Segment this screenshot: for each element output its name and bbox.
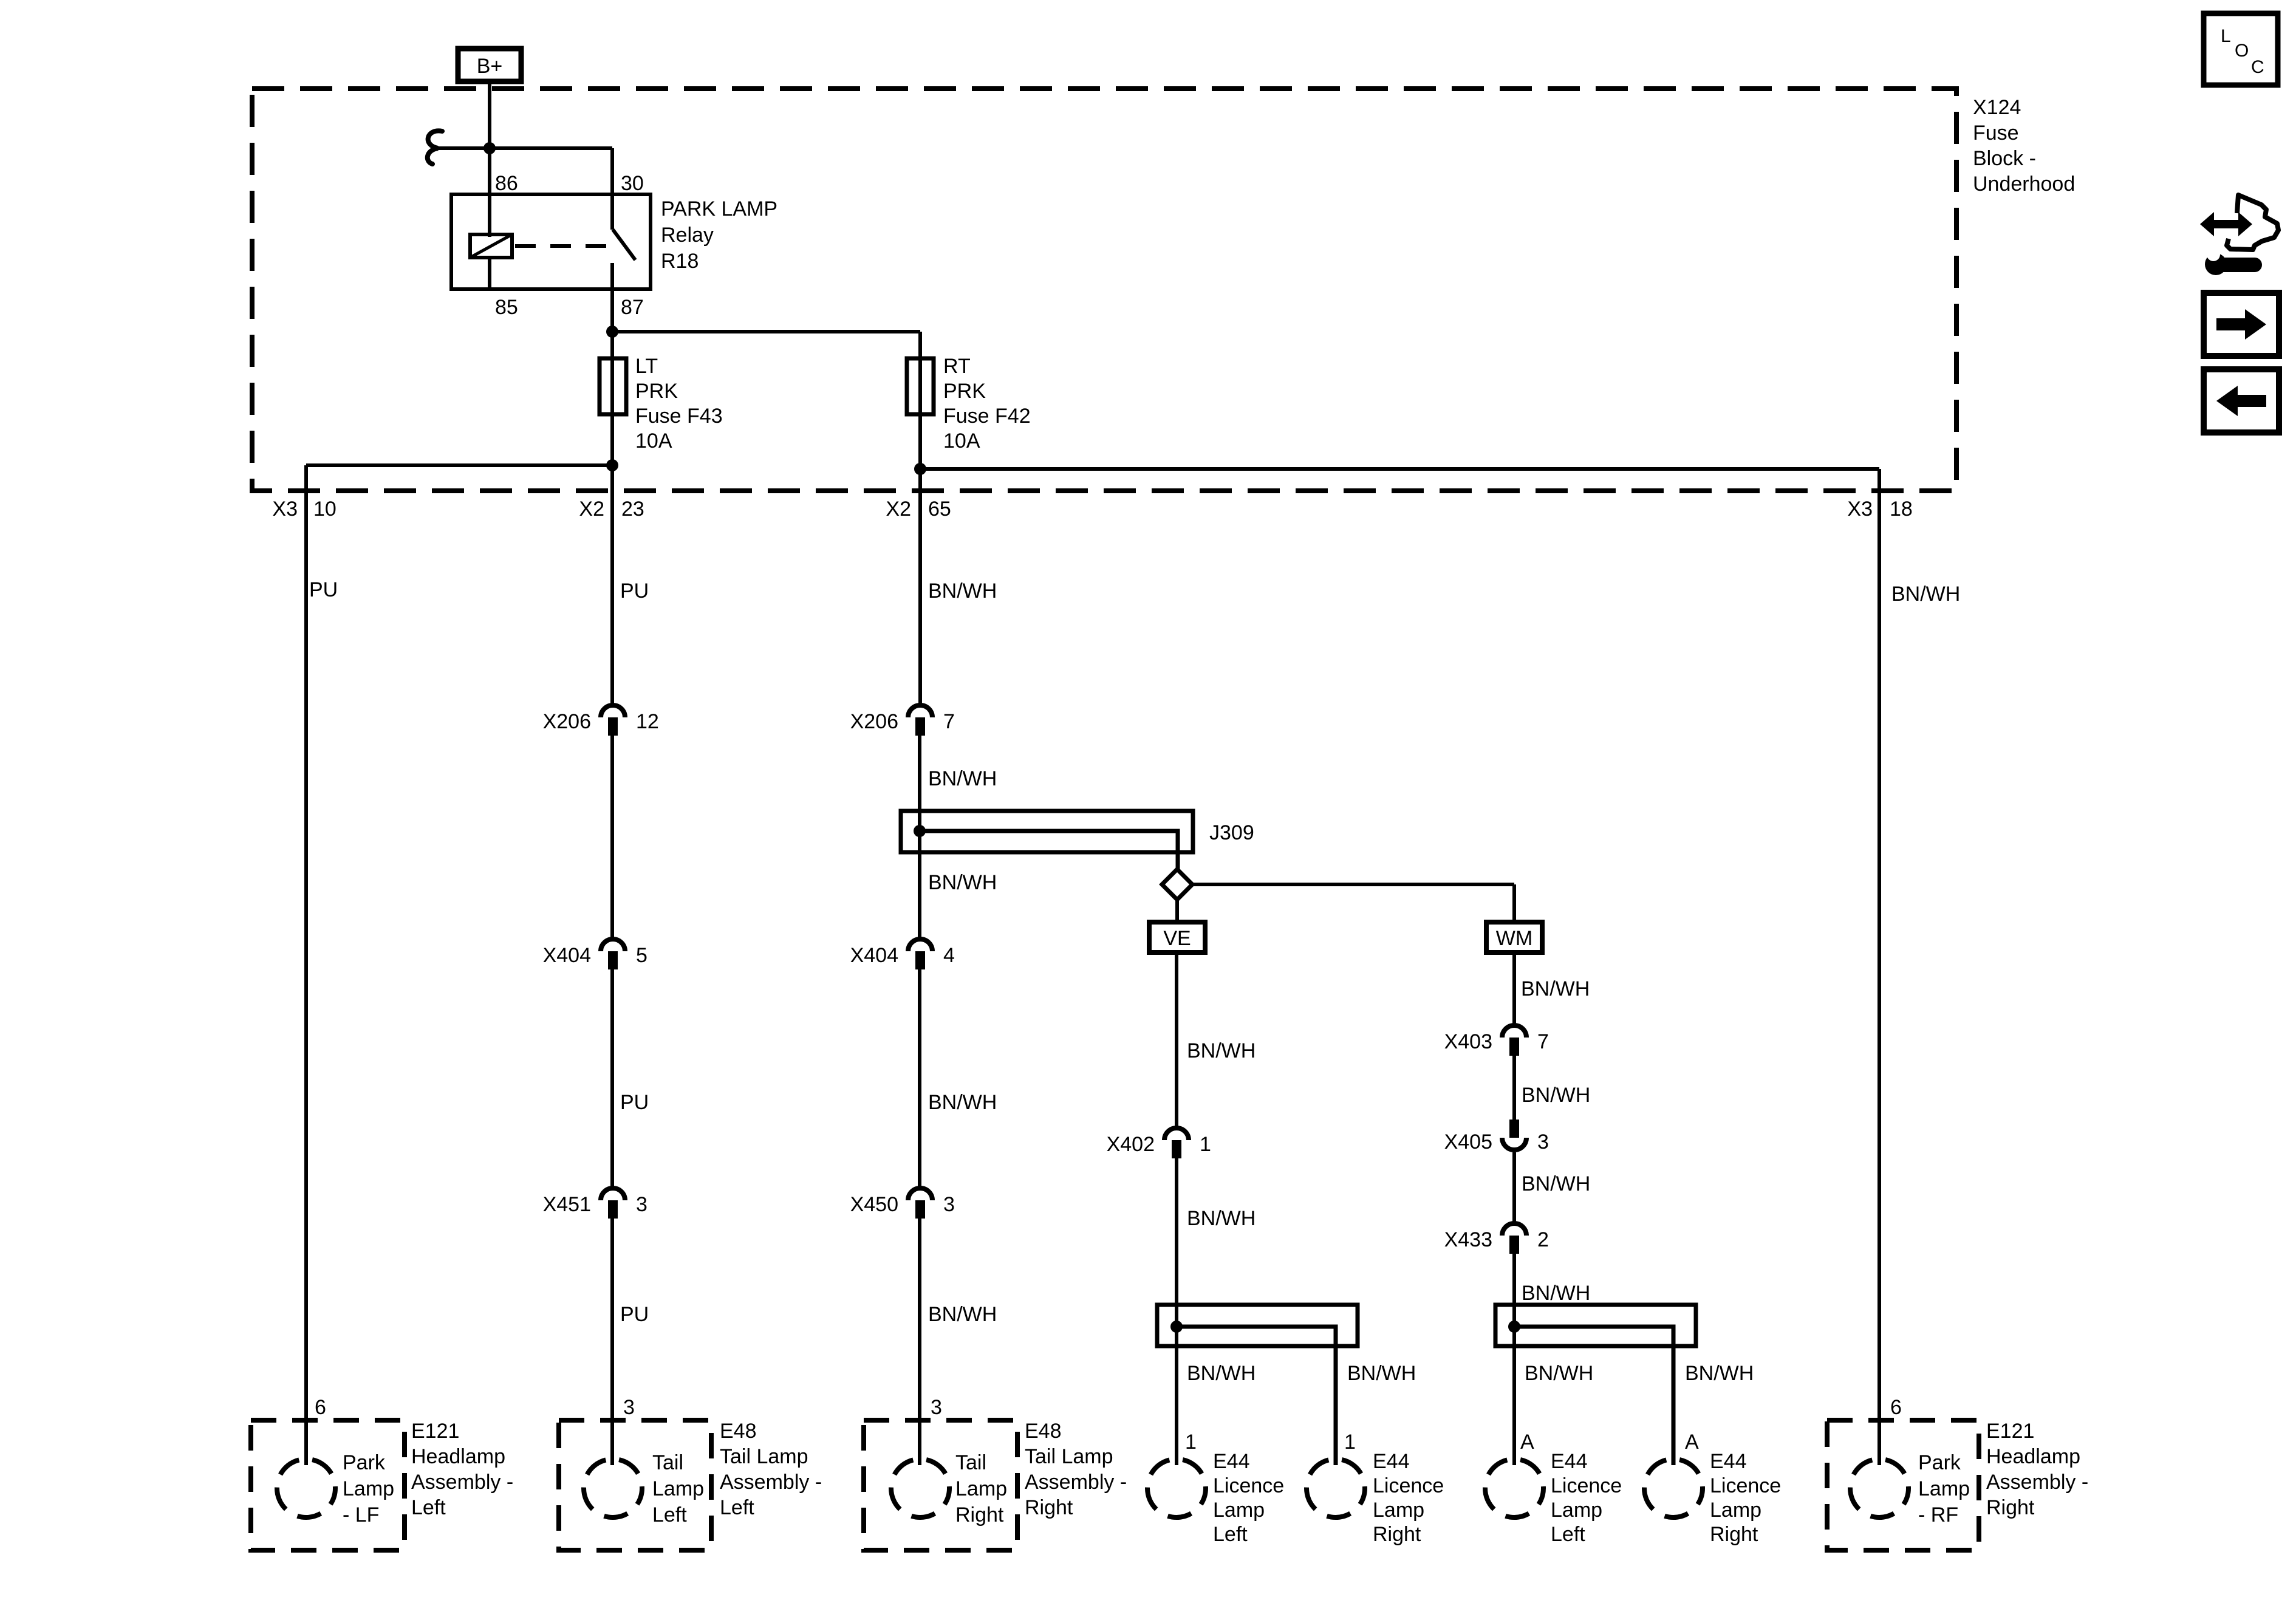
svg-text:R18: R18 — [661, 250, 699, 273]
svg-text:BN/WH: BN/WH — [1891, 583, 1960, 606]
fusible link symbol — [428, 131, 442, 164]
junction on B+ wire — [483, 142, 496, 154]
wire X403 to X405 — [1512, 1056, 1516, 1120]
svg-text:X433: X433 — [1444, 1228, 1492, 1251]
svg-text:X451: X451 — [543, 1193, 591, 1216]
svg-text:PRK: PRK — [635, 380, 678, 403]
tail lamp assembly E48 left dashed box — [559, 1420, 711, 1550]
wire BN/WH segment 3 — [918, 969, 921, 1187]
svg-text:3: 3 — [623, 1396, 635, 1419]
svg-text:X405: X405 — [1444, 1130, 1492, 1154]
nav arrow back — [2216, 386, 2266, 416]
svg-text:Assembly -: Assembly - — [1025, 1471, 1127, 1494]
svg-text:BN/WH: BN/WH — [928, 1091, 997, 1114]
svg-text:1: 1 — [1200, 1133, 1211, 1156]
nav arrow forward — [2216, 309, 2266, 340]
connector X403 pin 7 — [1502, 1025, 1526, 1038]
svg-text:Licence: Licence — [1373, 1474, 1444, 1497]
licence lamp E44 left bulb — [1147, 1459, 1206, 1517]
connector X404 pin 4 — [908, 939, 932, 951]
tail lamp right bulb — [891, 1459, 949, 1517]
svg-text:PARK LAMP: PARK LAMP — [661, 197, 777, 220]
tail lamp left bulb — [584, 1459, 642, 1517]
wire through fuse F42 — [918, 358, 922, 469]
svg-text:5: 5 — [636, 944, 647, 967]
svg-text:Lamp: Lamp — [652, 1477, 704, 1500]
wire X2-23 PU segment 1 — [610, 414, 614, 704]
svg-text:2: 2 — [1537, 1228, 1549, 1251]
wire diamond to WM — [1192, 883, 1514, 886]
svg-text:BN/WH: BN/WH — [1522, 1282, 1590, 1305]
svg-text:Left: Left — [720, 1496, 754, 1519]
svg-text:Tail: Tail — [955, 1451, 986, 1474]
svg-text:A: A — [1520, 1431, 1534, 1454]
svg-text:BN/WH: BN/WH — [928, 1303, 997, 1326]
connector X433 pin 2 — [1502, 1223, 1526, 1236]
svg-text:Tail Lamp: Tail Lamp — [1025, 1445, 1113, 1468]
svg-text:Licence: Licence — [1213, 1474, 1284, 1497]
harness tag WM — [1486, 922, 1542, 952]
svg-text:Left: Left — [411, 1496, 446, 1519]
svg-text:Fuse F42: Fuse F42 — [943, 405, 1031, 428]
svg-text:30: 30 — [621, 172, 644, 195]
svg-text:PU: PU — [620, 1303, 649, 1326]
svg-text:7: 7 — [943, 710, 955, 733]
svg-text:Lamp: Lamp — [1213, 1499, 1265, 1522]
wire VE to X402 — [1175, 952, 1178, 1127]
connector X405 pin 3 — [1502, 1138, 1526, 1150]
svg-text:6: 6 — [1890, 1396, 1902, 1419]
svg-text:RT: RT — [943, 355, 971, 378]
connector X404 pin 5 — [601, 939, 625, 951]
svg-text:3: 3 — [931, 1396, 942, 1419]
headlamp assembly E121 right dashed box — [1827, 1420, 1979, 1550]
fuse F42 — [907, 358, 934, 414]
svg-text:BN/WH: BN/WH — [928, 871, 997, 894]
svg-text:PU: PU — [620, 1091, 649, 1114]
junction at F43 output — [606, 459, 618, 471]
relay R18 outline — [451, 194, 651, 289]
park lamp LF bulb — [277, 1459, 335, 1517]
svg-text:12: 12 — [636, 710, 659, 733]
svg-text:BN/WH: BN/WH — [1187, 1362, 1256, 1385]
svg-text:Lamp: Lamp — [343, 1477, 394, 1500]
svg-text:- RF: - RF — [1918, 1503, 1958, 1526]
svg-text:Lamp: Lamp — [1551, 1499, 1602, 1522]
svg-text:X3: X3 — [272, 497, 298, 521]
licence lamp E44 left bulb (rear) — [1485, 1459, 1543, 1517]
svg-text:10A: 10A — [943, 429, 980, 453]
wire diamond to VE — [1175, 900, 1179, 922]
svg-text:Fuse: Fuse — [1973, 121, 2019, 145]
svg-text:87: 87 — [621, 296, 644, 319]
svg-text:X3: X3 — [1847, 497, 1873, 521]
svg-text:7: 7 — [1537, 1030, 1549, 1053]
svg-text:Park: Park — [1918, 1451, 1961, 1474]
component-view icon (car outline with arrows) — [2227, 195, 2278, 250]
svg-text:E48: E48 — [720, 1420, 757, 1443]
svg-text:Underhood: Underhood — [1973, 173, 2075, 196]
svg-text:J309: J309 — [1209, 821, 1254, 844]
svg-text:10: 10 — [313, 497, 337, 521]
splice J309 — [901, 811, 1193, 852]
wire WM to X403 — [1512, 952, 1516, 1024]
svg-text:B+: B+ — [477, 55, 503, 78]
svg-text:X124: X124 — [1973, 96, 2021, 119]
headlamp assembly E121 left dashed box — [251, 1420, 405, 1550]
svg-text:X450: X450 — [850, 1193, 898, 1216]
wire squiggle to relay pin 30 — [438, 146, 612, 150]
junction at pin 87 — [606, 326, 618, 338]
connector X451 pin 3 — [601, 1188, 625, 1200]
svg-text:E44: E44 — [1373, 1450, 1410, 1473]
tail lamp assembly E48 right dashed box — [864, 1420, 1017, 1550]
svg-text:Relay: Relay — [661, 224, 714, 247]
licence lamp E44 right bulb (rear) — [1644, 1459, 1703, 1517]
svg-text:Lamp: Lamp — [1710, 1499, 1761, 1522]
svg-text:Left: Left — [1551, 1523, 1585, 1546]
svg-text:BN/WH: BN/WH — [1522, 1084, 1590, 1107]
wire X402 to splice — [1175, 1158, 1178, 1465]
nav arrow back box — [2204, 369, 2279, 432]
svg-text:Fuse F43: Fuse F43 — [635, 405, 723, 428]
splice box licence right — [1495, 1305, 1696, 1346]
svg-text:Right: Right — [955, 1503, 1004, 1526]
harness tag VE — [1149, 922, 1205, 952]
svg-text:Lamp: Lamp — [1918, 1477, 1970, 1500]
wire BN/WH segment 4 — [918, 1219, 921, 1465]
svg-text:X403: X403 — [1444, 1030, 1492, 1053]
svg-text:Licence: Licence — [1710, 1474, 1781, 1497]
wire through fuse F43 — [610, 332, 614, 465]
svg-text:Assembly -: Assembly - — [411, 1471, 513, 1494]
svg-text:A: A — [1685, 1431, 1699, 1454]
svg-text:10A: 10A — [635, 429, 672, 453]
svg-text:Tail: Tail — [652, 1451, 683, 1474]
svg-text:E44: E44 — [1213, 1450, 1250, 1473]
svg-text:PU: PU — [309, 578, 338, 601]
svg-text:E44: E44 — [1551, 1450, 1588, 1473]
svg-text:Licence: Licence — [1551, 1474, 1622, 1497]
svg-text:Right: Right — [1025, 1496, 1073, 1519]
svg-text:LT: LT — [635, 355, 658, 378]
svg-text:C: C — [2251, 57, 2264, 77]
svg-text:BN/WH: BN/WH — [1187, 1207, 1256, 1230]
svg-text:Left: Left — [652, 1503, 687, 1526]
svg-text:Assembly -: Assembly - — [720, 1471, 822, 1494]
svg-text:86: 86 — [495, 172, 518, 195]
LOC page tag — [2204, 13, 2278, 85]
svg-text:Park: Park — [343, 1451, 386, 1474]
svg-text:Block -: Block - — [1973, 147, 2036, 170]
licence lamp E44 right bulb — [1307, 1459, 1365, 1517]
svg-text:X206: X206 — [543, 710, 591, 733]
svg-text:3: 3 — [636, 1193, 647, 1216]
fuse F43 — [600, 358, 626, 414]
svg-text:E121: E121 — [411, 1420, 459, 1443]
svg-text:WM: WM — [1496, 927, 1532, 950]
svg-text:- LF: - LF — [343, 1503, 379, 1526]
junction at F42 output — [914, 463, 926, 475]
svg-text:E121: E121 — [1986, 1420, 2034, 1443]
fuse block X124 dashed outline — [252, 89, 1956, 491]
svg-text:BN/WH: BN/WH — [928, 767, 997, 790]
svg-text:3: 3 — [1537, 1130, 1549, 1154]
wire PU segment 3 — [610, 969, 614, 1187]
relay coil — [470, 234, 512, 258]
svg-text:18: 18 — [1890, 497, 1913, 521]
svg-text:E48: E48 — [1025, 1420, 1062, 1443]
svg-text:Assembly -: Assembly - — [1986, 1471, 2088, 1494]
svg-text:BN/WH: BN/WH — [1522, 1172, 1590, 1195]
wire X3-10 to park lamp LF — [304, 465, 308, 1465]
svg-text:6: 6 — [315, 1396, 326, 1419]
connector X206 pin 7 — [908, 705, 932, 717]
svg-text:O: O — [2235, 41, 2249, 61]
connector X402 pin 1 — [1164, 1128, 1189, 1140]
svg-text:1: 1 — [1344, 1431, 1356, 1454]
wire PU segment 2 — [610, 736, 614, 938]
svg-text:Tail Lamp: Tail Lamp — [720, 1445, 808, 1468]
svg-text:X206: X206 — [850, 710, 898, 733]
svg-text:Headlamp: Headlamp — [1986, 1445, 2080, 1468]
svg-text:BN/WH: BN/WH — [1525, 1362, 1593, 1385]
svg-text:1: 1 — [1185, 1431, 1197, 1454]
svg-text:Right: Right — [1373, 1523, 1421, 1546]
svg-text:X402: X402 — [1107, 1133, 1155, 1156]
svg-text:PU: PU — [620, 579, 649, 603]
wire X2-65 BN/WH segment 1 — [918, 414, 922, 704]
svg-text:BN/WH: BN/WH — [1187, 1039, 1256, 1062]
svg-text:BN/WH: BN/WH — [1521, 977, 1590, 1000]
nav arrow forward box — [2204, 293, 2279, 356]
power terminal B+ — [458, 49, 521, 81]
relay switch contact — [613, 230, 635, 260]
svg-text:Lamp: Lamp — [955, 1477, 1007, 1500]
svg-text:E44: E44 — [1710, 1450, 1747, 1473]
svg-text:Lamp: Lamp — [1373, 1499, 1424, 1522]
wrench icon — [2222, 258, 2255, 272]
svg-text:X2: X2 — [886, 497, 911, 521]
svg-text:Right: Right — [1710, 1523, 1758, 1546]
svg-text:BN/WH: BN/WH — [1685, 1362, 1754, 1385]
wire BN/WH segment 2 — [918, 736, 921, 938]
wire X433 to splice — [1512, 1254, 1516, 1465]
connector X450 pin 3 — [908, 1188, 932, 1200]
wire F43 output to X3 pin 10 — [306, 463, 612, 467]
wire F42 output to X3 pin 18 — [920, 467, 1879, 471]
connector X206 pin 12 — [601, 705, 625, 717]
svg-text:Right: Right — [1986, 1496, 2035, 1519]
svg-text:85: 85 — [495, 296, 518, 319]
wire B+ to relay coil — [488, 81, 491, 237]
svg-text:L: L — [2221, 26, 2231, 46]
svg-text:BN/WH: BN/WH — [928, 579, 997, 603]
svg-text:4: 4 — [943, 944, 955, 967]
park lamp RF bulb — [1850, 1459, 1908, 1517]
svg-text:65: 65 — [928, 497, 951, 521]
wire PU segment 4 — [610, 1219, 614, 1465]
svg-text:3: 3 — [943, 1193, 955, 1216]
svg-text:X404: X404 — [543, 944, 591, 967]
svg-text:PRK: PRK — [943, 380, 986, 403]
svg-text:BN/WH: BN/WH — [1347, 1362, 1416, 1385]
svg-text:Left: Left — [1213, 1523, 1248, 1546]
splice box licence left — [1157, 1305, 1358, 1346]
svg-text:X404: X404 — [850, 944, 898, 967]
wire relay 87 to fuses F43/F42 — [612, 330, 920, 333]
svg-text:23: 23 — [621, 497, 644, 521]
wire X3-18 to park lamp RF — [1877, 469, 1881, 1465]
svg-text:Headlamp: Headlamp — [411, 1445, 505, 1468]
svg-text:X2: X2 — [579, 497, 604, 521]
junction diamond after J309 — [1162, 869, 1192, 900]
relay actuation dashed link — [515, 244, 607, 248]
svg-text:VE: VE — [1163, 927, 1191, 950]
wire X405 to X433 — [1512, 1152, 1516, 1222]
